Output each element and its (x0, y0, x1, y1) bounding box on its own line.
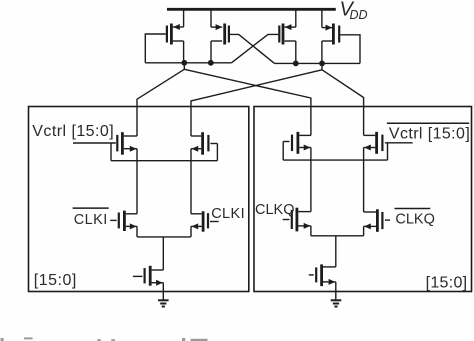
transistor M5 (Vctrl varactor left, I cell) (73, 132, 137, 214)
transistor M4 (diode-connected PMOS, rightmost) (322, 8, 360, 63)
wire gate tie line I cell (111, 160, 217, 162)
transistor M6 (Vctrl varactor right, I cell) (191, 132, 217, 214)
transistor M12 (CLKQ switch, Q cell) (283, 208, 311, 236)
transistor M9 (tail current source, I cell) (133, 266, 163, 300)
transistor M11 (Vctrl varactor right, Q cell) (364, 132, 413, 212)
junction dot node A1 (181, 60, 187, 66)
ground (Q cell) (331, 300, 342, 306)
caption fragment (clipped text at page bottom) (1, 337, 208, 341)
svg-text:CLKI: CLKI (74, 212, 108, 228)
svg-text:Vctrl [15:0]: Vctrl [15:0] (32, 123, 114, 140)
transistor M1 (diode-connected PMOS, leftmost) (145, 8, 183, 63)
wire node A to left box left column (137, 69, 184, 136)
transistor M10 (Vctrl varactor left, Q cell) (283, 132, 311, 212)
wire tail tap Q cell (335, 236, 337, 267)
node B horizontal wire (275, 62, 361, 64)
node B stub and fan-out (321, 63, 323, 69)
junction dot node B2 (319, 61, 325, 67)
junction dot node A2 (208, 60, 214, 66)
transistor M14 (tail current source, Q cell) (309, 264, 336, 299)
right box (Q cell) (254, 107, 472, 292)
overline of CLKQbar label (395, 208, 431, 210)
junction dot node B1 (293, 61, 299, 67)
wire tail tap I cell (162, 237, 164, 270)
transistor M8 (CLKI switch, I cell) (191, 211, 219, 237)
left box (I cell) (29, 107, 249, 292)
svg-text:Vctrl [15:0]: Vctrl [15:0] (389, 126, 470, 143)
node A horizontal wire (145, 62, 231, 64)
transistor M13 (CLKQbar switch, Q cell) (364, 209, 390, 236)
wire node B to right box right column (322, 70, 364, 136)
svg-text:CLKQ: CLKQ (395, 212, 435, 228)
svg-text:[15:0]: [15:0] (426, 274, 468, 291)
svg-text:[15:0]: [15:0] (34, 272, 77, 289)
wire source join Q cell (311, 235, 364, 237)
wire M3 gate to node A (cross coupling) (232, 34, 279, 62)
node A stub and fan-out (183, 63, 185, 70)
overline of CLKIbar label (73, 207, 109, 209)
svg-text:CLKI: CLKI (211, 206, 245, 222)
svg-text:DD: DD (350, 8, 368, 22)
ground (I cell) (158, 300, 169, 306)
wire gate tie line Q cell (283, 159, 387, 161)
transistor M2 (cross-coupled PMOS, second) (211, 8, 275, 63)
wire node A to right box left column (184, 69, 311, 135)
wire source join I cell (137, 236, 191, 238)
transistor M3 (cross-coupled PMOS, third) (232, 8, 296, 63)
transistor M7 (CLKIbar switch, I cell) (110, 211, 137, 237)
svg-text:CLKQ: CLKQ (255, 202, 295, 218)
wire node B to left box right column (191, 70, 322, 136)
VDD rail (167, 8, 336, 11)
overline of Vctrlbar label (387, 122, 469, 124)
wire M2 gate to node B (cross coupling) (230, 34, 275, 63)
